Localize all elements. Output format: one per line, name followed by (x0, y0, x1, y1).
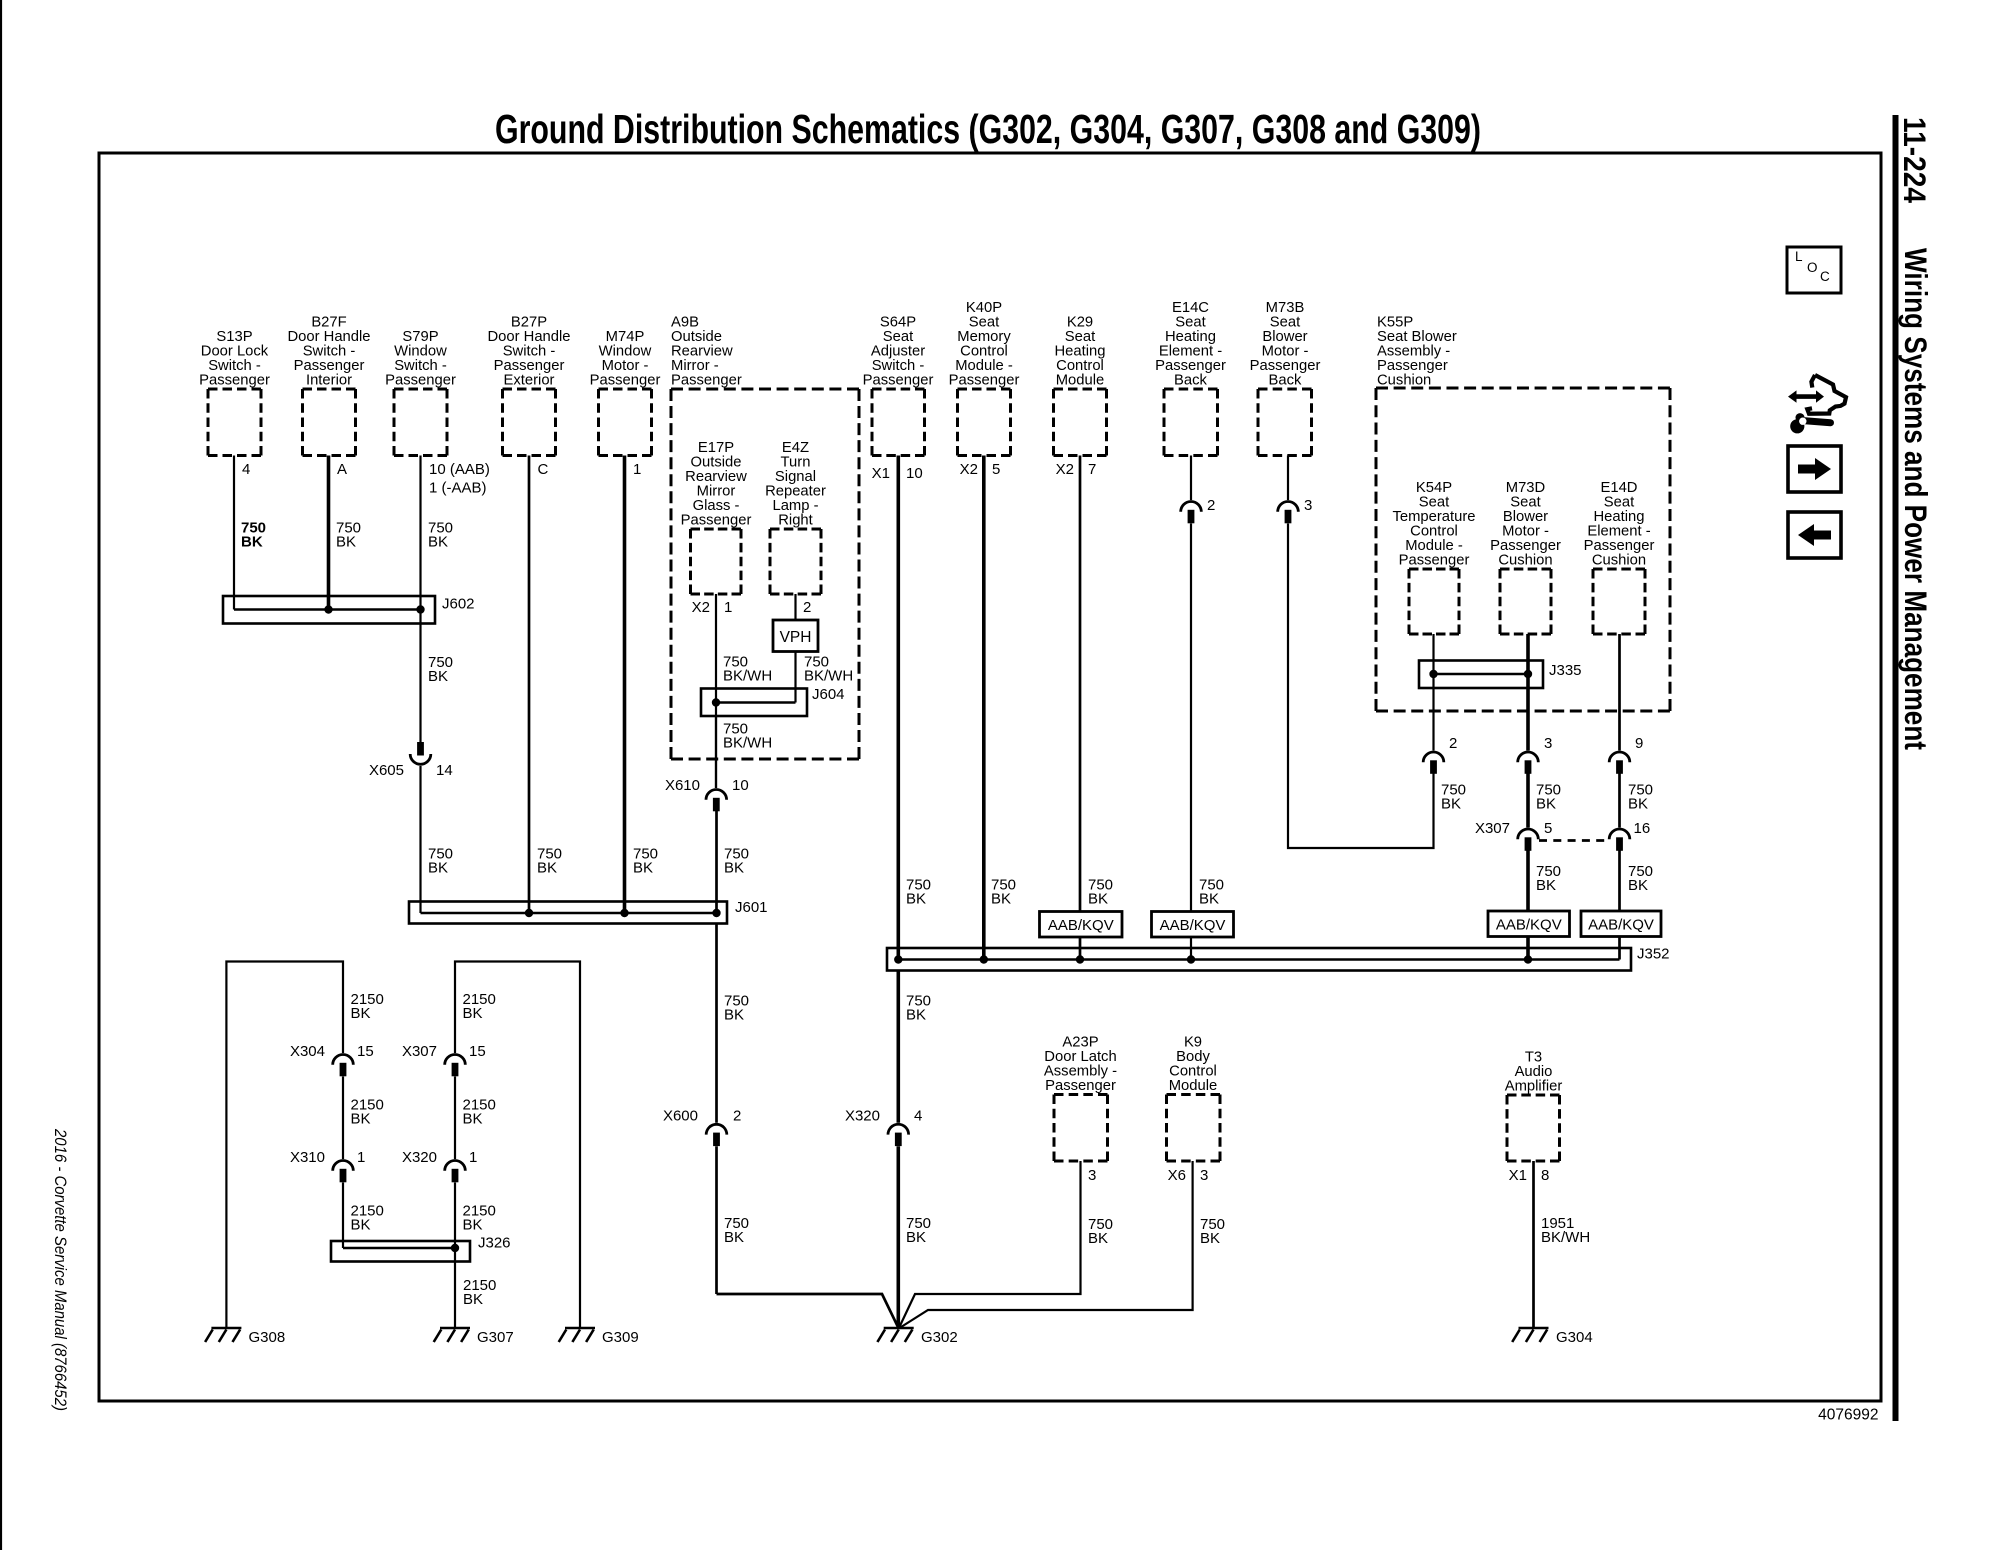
connector B27P Door Handle Switch - Passenger Exterior (487, 315, 570, 456)
wire label 750 BK/WH (below J604) (723, 721, 772, 752)
label X320 / 4 (845, 1108, 922, 1125)
wire X307-16 to AAB/KQV (1618, 851, 1621, 912)
connector K40P Seat Memory Control Module - Passenger (949, 300, 1020, 455)
inline connector pin 9 (E14D) (1609, 752, 1630, 774)
wire X600 branch to ground G302 (717, 1146, 899, 1328)
page number 11-224 (1897, 117, 1933, 203)
svg-text:BK: BK (1536, 877, 1556, 894)
svg-text:BK: BK (724, 860, 744, 877)
svg-text:X2: X2 (1056, 461, 1074, 478)
label J602 (442, 596, 475, 613)
assembly K55P Seat Blower Assembly - Passenger Cushion (1376, 315, 1670, 711)
junction dot J326/G307 leg (451, 1244, 459, 1252)
connector S64P Seat Adjuster Switch - Passenger (863, 315, 934, 456)
wire X307-5 to AAB/KQV (1526, 851, 1530, 912)
svg-text:1: 1 (633, 461, 641, 478)
wire B27P-C to splice J601 (528, 456, 531, 914)
svg-text:10: 10 (732, 777, 749, 794)
svg-text:4: 4 (242, 461, 250, 478)
wire T3 to ground G304 (1532, 1161, 1535, 1329)
svg-text:Module: Module (1056, 373, 1105, 389)
label X605 / 14 (369, 762, 453, 779)
svg-text:A: A (337, 461, 347, 478)
title (495, 106, 1481, 152)
splice J601 (409, 902, 727, 924)
wire X320-4 to ground G302 (896, 1146, 900, 1328)
svg-text:Right: Right (778, 513, 813, 529)
inline connector X605 pin 14 (410, 742, 431, 764)
label X600 / 2 (663, 1108, 741, 1125)
svg-text:C: C (538, 461, 549, 478)
svg-text:X304: X304 (290, 1043, 325, 1060)
svg-text:BK: BK (724, 1007, 744, 1024)
wire S79P to splice J602 and connector X605 (419, 456, 421, 743)
wire AAB/KQV to J352 (E14D) (1618, 937, 1621, 960)
svg-text:10 (AAB): 10 (AAB) (429, 461, 490, 478)
svg-text:X2: X2 (692, 599, 710, 616)
svg-text:J602: J602 (442, 596, 475, 613)
svg-text:BK/WH: BK/WH (723, 735, 772, 752)
pins X1 / 10 of S64P (872, 465, 923, 482)
wire label 750 BK (E14D) (1628, 782, 1653, 813)
wire label 2150 BK (X320-J326) (463, 1203, 496, 1234)
svg-text:J604: J604 (812, 686, 845, 703)
junction dot J335/M73D (1524, 670, 1532, 678)
svg-text:BK: BK (351, 1217, 371, 1234)
svg-text:AAB/KQV: AAB/KQV (1160, 917, 1226, 934)
svg-text:Cushion: Cushion (1377, 373, 1431, 389)
wire S64P to splice J352 (896, 456, 900, 960)
inline connector X307 pin 16 (1609, 829, 1630, 851)
wire loop G309 to X307 leg (455, 962, 580, 1330)
wire label 2150 BK (X310-J326) (351, 1203, 384, 1234)
schematic border frame (99, 153, 1881, 1401)
wire X320 through splice J326 to ground G307 (454, 1183, 456, 1330)
wire X610 to splice J601 (715, 811, 718, 913)
svg-text:BK: BK (537, 860, 557, 877)
label X310 / 1 (290, 1149, 365, 1166)
wire J604 to connector X610 (715, 716, 717, 788)
svg-text:Module: Module (1169, 1078, 1218, 1094)
label G307 (477, 1329, 514, 1346)
svg-text:15: 15 (469, 1043, 486, 1060)
svg-text:BK: BK (1536, 796, 1556, 813)
wire label 750 BK (below J601) (724, 993, 749, 1024)
wire label 750 BK (A23P) (1088, 1216, 1113, 1247)
svg-text:8: 8 (1541, 1167, 1549, 1184)
right sidebar rule (1893, 115, 1899, 1421)
svg-text:BK: BK (241, 534, 263, 551)
svg-text:BK: BK (906, 1007, 926, 1024)
svg-text:X307: X307 (402, 1043, 437, 1060)
svg-text:Interior: Interior (306, 373, 352, 389)
svg-text:G307: G307 (477, 1329, 514, 1346)
svg-text:BK: BK (336, 534, 356, 551)
inline connector X320 pin 1 (445, 1160, 466, 1182)
svg-text:BK: BK (724, 1229, 744, 1246)
document number 4076992 (1818, 1407, 1878, 1424)
wire label 750 BK (K40P) (991, 877, 1016, 908)
pin label 9 (E14D) (1635, 735, 1643, 752)
inline connector X610 pin 10 (706, 790, 727, 812)
pin label 2 (E14C) (1207, 497, 1215, 514)
svg-text:3: 3 (1200, 1167, 1208, 1184)
svg-text:2016 - Corvette Service Manual: 2016 - Corvette Service Manual (8766452) (51, 1128, 69, 1411)
wire B27F-A to splice J602 (327, 456, 331, 610)
svg-text:BK: BK (463, 1111, 483, 1128)
pins X1 / 8 of T3 (1509, 1167, 1550, 1184)
svg-text:VPH: VPH (780, 629, 812, 646)
svg-text:BK: BK (428, 668, 448, 685)
svg-text:X605: X605 (369, 762, 404, 779)
svg-text:BK: BK (463, 1291, 483, 1308)
svg-text:BK/WH: BK/WH (1541, 1229, 1590, 1246)
inline connector X600 pin 2 (706, 1124, 727, 1146)
wire E17P to splice J604 (715, 594, 717, 788)
label J335 (1549, 662, 1582, 679)
label X307 / 15 (402, 1043, 486, 1060)
svg-text:G309: G309 (602, 1329, 639, 1346)
pin label 3 (M73B) (1304, 497, 1312, 514)
wire label 750 BK (B27F) (336, 520, 361, 551)
module M73D Seat Blower Motor - Passenger Cushion (1490, 480, 1561, 634)
junction dot J604/E17P (712, 698, 720, 706)
wire K40P to splice J352 (982, 456, 986, 960)
svg-text:BK: BK (1088, 1230, 1108, 1247)
junction dot J352/S64P (894, 955, 902, 963)
door harness icon with double arrow and wrench (1788, 375, 1846, 433)
wire S13P-4 to splice J602 (233, 456, 235, 610)
svg-text:3: 3 (1544, 735, 1552, 752)
svg-text:X6: X6 (1168, 1167, 1186, 1184)
label G309 (602, 1329, 639, 1346)
svg-text:BK: BK (1441, 796, 1461, 813)
wire X310 to splice J326 (342, 1183, 344, 1249)
label J604 (812, 686, 845, 703)
inline connector X310 pin 1 (333, 1160, 354, 1182)
svg-text:BK: BK (991, 891, 1011, 908)
junction dot J352/E14C (1187, 955, 1195, 963)
svg-text:BK: BK (463, 1217, 483, 1234)
connector E14C Seat Heating Element - Passenger Back (1155, 300, 1226, 455)
connector S13P Door Lock Switch - Passenger (199, 329, 270, 455)
connector S79P Window Switch - Passenger (385, 329, 456, 455)
wire label 750 BK (M74P) (633, 846, 658, 877)
assembly A9B Outside Rearview Mirror - Passenger (671, 315, 859, 759)
svg-text:Passenger: Passenger (671, 373, 742, 389)
wire label 750 BK (B27P) (537, 846, 562, 877)
svg-text:Passenger: Passenger (863, 373, 934, 389)
inline connector X304 pin 15 (333, 1054, 354, 1076)
junction dot J335/K54P (1429, 670, 1437, 678)
svg-text:BK: BK (1628, 877, 1648, 894)
pins X2 / 1 of E17P (692, 599, 733, 616)
svg-text:Passenger: Passenger (385, 373, 456, 389)
svg-text:1: 1 (724, 599, 732, 616)
svg-text:9: 9 (1635, 735, 1643, 752)
wire label 750 BK (X610 branch) (724, 846, 749, 877)
wire label 750 BK (X307-16) (1628, 863, 1653, 894)
wire label 750 BK/WH (E17P) (723, 654, 772, 685)
label J601 (735, 899, 768, 916)
label G308 (249, 1329, 286, 1346)
wire label 750 BK (S79P above J601) (428, 846, 453, 877)
inline connector X307 pin 15 (445, 1054, 466, 1076)
svg-text:BK: BK (351, 1005, 371, 1022)
pins X2 / 7 of K29 (1056, 461, 1097, 478)
page left edge rule (0, 0, 2, 1550)
pin label 2 (K54P) (1449, 735, 1457, 752)
svg-text:Cushion: Cushion (1592, 553, 1646, 569)
splice J602 (223, 596, 435, 624)
pin 1 of M74P (633, 461, 641, 478)
wire label 750 BK (E14C) (1199, 877, 1224, 908)
wire X307 to X320 (454, 1077, 456, 1160)
svg-text:BK: BK (1200, 1230, 1220, 1247)
svg-text:11-224: 11-224 (1897, 117, 1933, 203)
connector K9 Body Control Module (1167, 1035, 1221, 1162)
svg-text:BK: BK (633, 860, 653, 877)
pin 4 of S13P (242, 461, 250, 478)
svg-text:X2: X2 (960, 461, 978, 478)
wire label 750 BK (S79P upper) (428, 520, 453, 551)
wire loop to ground G308 (226, 962, 343, 1330)
svg-text:4: 4 (914, 1108, 922, 1125)
connector M73B Seat Blower Motor - Passenger Back (1250, 300, 1321, 455)
svg-text:3: 3 (1304, 497, 1312, 514)
svg-text:4076992: 4076992 (1818, 1407, 1878, 1424)
wire label 1951 BK/WH (T3) (1541, 1215, 1590, 1246)
svg-text:1 (-AAB): 1 (-AAB) (429, 480, 487, 497)
svg-text:Passenger: Passenger (199, 373, 270, 389)
wire label 750 BK (X307-5) (1536, 863, 1561, 894)
connector E4Z Turn Signal Repeater Lamp - Right (765, 440, 826, 594)
wire M73D to connector X307 (1526, 774, 1530, 828)
pin 3 of A23P (1088, 1167, 1096, 1184)
svg-text:G308: G308 (249, 1329, 286, 1346)
svg-text:1: 1 (357, 1149, 365, 1166)
svg-text:X310: X310 (290, 1149, 325, 1166)
wire M73B joining K54P branch (1288, 524, 1434, 849)
svg-text:X600: X600 (663, 1108, 698, 1125)
option box AAB/KQV (K29) (1040, 912, 1123, 938)
wire AAB/KQV to J352 (M73D) (1526, 937, 1530, 960)
wire label 750 BK (S13P) (241, 520, 266, 551)
junction dot J352/K29 (1076, 955, 1084, 963)
label J326 (478, 1235, 511, 1252)
ground G307 (434, 1328, 470, 1342)
option box AAB/KQV (E14D) (1581, 911, 1661, 937)
junction dot J601/M74P (620, 909, 628, 917)
wire label 2150 BK (X304 branch upper) (351, 991, 384, 1022)
svg-text:BK: BK (906, 1229, 926, 1246)
connector E17P Outside Rearview Mirror Glass - Passenger (681, 440, 752, 594)
svg-text:BK: BK (906, 891, 926, 908)
pins X2 / 5 of K40P (960, 461, 1001, 478)
ground G308 (205, 1328, 241, 1342)
label G302 (921, 1329, 958, 1346)
wire X605 to splice J601 (419, 766, 421, 913)
svg-text:Ground Distribution Schematics: Ground Distribution Schematics (G302, G3… (495, 106, 1481, 152)
svg-text:14: 14 (436, 762, 453, 779)
inline connector X320 pin 4 (888, 1124, 909, 1146)
wire J601 to connector X600 (715, 924, 718, 1123)
wire E14D to connector X307 (1618, 774, 1621, 828)
inline connector pin 3 (M73D) (1518, 752, 1539, 774)
svg-text:AAB/KQV: AAB/KQV (1048, 917, 1114, 934)
wire label 750 BK (below J352) (906, 993, 931, 1024)
wire label 2150 BK (below J326) (463, 1277, 496, 1308)
inline connector X307 pin 5 (1518, 829, 1539, 851)
wire X304 to X310 (342, 1077, 344, 1160)
ground G302 (877, 1328, 913, 1342)
wire VPH to splice J604 (794, 652, 796, 703)
svg-text:X320: X320 (845, 1108, 880, 1125)
wire label 750 BK (K9) (1200, 1216, 1225, 1247)
splice J352 (887, 948, 1631, 971)
wire AAB/KQV to J352 (K29) (1079, 937, 1082, 960)
svg-text:C: C (1820, 269, 1830, 284)
left margin note 2016 - Corvette Service Manual (8766452) (51, 1128, 69, 1411)
ground G309 (559, 1328, 595, 1342)
svg-text:10: 10 (906, 465, 923, 482)
svg-text:J335: J335 (1549, 662, 1582, 679)
svg-text:BK: BK (428, 534, 448, 551)
connector T3 Audio Amplifier (1505, 1050, 1563, 1162)
label X320 / 1 (402, 1149, 477, 1166)
label X610 / 10 (665, 777, 749, 794)
junction dot J601/B27P (525, 909, 533, 917)
wire M73D to splice J335 and below (1526, 634, 1530, 751)
svg-text:X307: X307 (1475, 820, 1510, 837)
module E14D Seat Heating Element - Passenger Cushion (1584, 480, 1655, 634)
svg-text:7: 7 (1088, 461, 1096, 478)
svg-text:16: 16 (1634, 820, 1651, 837)
junction dot J602/S79P (416, 605, 424, 613)
ground G304 (1512, 1328, 1548, 1342)
svg-text:J601: J601 (735, 899, 768, 916)
svg-text:1: 1 (469, 1149, 477, 1166)
svg-text:5: 5 (1544, 820, 1552, 837)
svg-text:O: O (1807, 260, 1818, 275)
junction dot J352/M73D (1524, 955, 1532, 963)
svg-text:X320: X320 (402, 1149, 437, 1166)
svg-text:BK: BK (428, 860, 448, 877)
svg-text:2: 2 (1207, 497, 1215, 514)
splice J604 (701, 689, 807, 717)
forward arrow icon box (1788, 446, 1841, 492)
svg-text:Passenger: Passenger (590, 373, 661, 389)
wire K9 to ground G302 (899, 1161, 1193, 1329)
inline connector pin 2 (E14C) (1181, 501, 1202, 523)
LOC icon box (1787, 247, 1841, 293)
pins X6 / 3 of K9 (1168, 1167, 1209, 1184)
svg-text:5: 5 (992, 461, 1000, 478)
svg-text:L: L (1795, 249, 1803, 264)
wire E4Z-2 to VPH option box (794, 594, 796, 620)
svg-text:BK/WH: BK/WH (804, 668, 853, 685)
inline connector pin 3 (M73B) (1278, 501, 1299, 523)
pin label 3 (M73D) (1544, 735, 1552, 752)
svg-text:3: 3 (1088, 1167, 1096, 1184)
option box AAB/KQV (M73D) (1488, 911, 1570, 937)
pin A of B27F (337, 461, 347, 478)
pins 10 (AAB) / 1 (-AAB) of S79P (429, 461, 490, 497)
wire K54P to splice J335 and connector pin 2 (1432, 634, 1434, 751)
inline connector pin 2 (K54P) (1423, 752, 1444, 774)
svg-text:G304: G304 (1556, 1329, 1593, 1346)
wire M73B to inline connector (1287, 456, 1289, 501)
svg-text:AAB/KQV: AAB/KQV (1496, 917, 1562, 934)
wire label 750 BK (X600 branch) (724, 1215, 749, 1246)
wire A23P-3 to ground G302 (899, 1161, 1081, 1329)
svg-text:15: 15 (357, 1043, 374, 1060)
wire M74P-1 to splice J601 (623, 456, 627, 914)
option box AAB/KQV (E14C) (1152, 912, 1234, 938)
svg-text:2: 2 (803, 599, 811, 616)
connector A23P Door Latch Assembly - Passenger (1044, 1035, 1117, 1162)
connector M74P Window Motor - Passenger (590, 329, 661, 455)
wire AAB/KQV to J352 (E14C) (1190, 937, 1192, 960)
wire label 750 BK (S79P below J602) (428, 654, 453, 685)
wire label 750 BK/WH (E4Z) (804, 654, 853, 685)
section header Wiring Systems and Power Management (1898, 248, 1934, 750)
svg-text:X610: X610 (665, 777, 700, 794)
junction dot J602/B27F (324, 605, 332, 613)
wire J352 to connector X320 and ground G302 (896, 971, 900, 1123)
svg-text:Passenger: Passenger (949, 373, 1020, 389)
svg-text:Amplifier: Amplifier (1505, 1079, 1563, 1095)
label X307 / 5 / 16 (1475, 820, 1650, 837)
wire label 750 BK (K29) (1088, 877, 1113, 908)
svg-text:2: 2 (1449, 735, 1457, 752)
svg-text:AAB/KQV: AAB/KQV (1588, 917, 1654, 934)
wire K29 to AAB/KQV option box (1079, 456, 1082, 912)
wire label 750 BK (M73D) (1536, 782, 1561, 813)
svg-text:2: 2 (733, 1108, 741, 1125)
back arrow icon box (1788, 512, 1841, 558)
junction dot J601/X610 branch (712, 909, 720, 917)
wire label 750 BK (S64P) (906, 877, 931, 908)
splice J335 (1419, 661, 1543, 689)
wire label 2150 BK (X307-X320) (463, 1097, 496, 1128)
wire label 2150 BK (X304-X310) (351, 1097, 384, 1128)
svg-text:Passenger: Passenger (681, 513, 752, 529)
svg-text:J326: J326 (478, 1235, 511, 1252)
label X304 / 15 (290, 1043, 374, 1060)
wire E14C to inline connector (1190, 456, 1192, 501)
svg-text:Wiring Systems and Power Manag: Wiring Systems and Power Management (1898, 248, 1934, 750)
svg-text:Exterior: Exterior (504, 373, 555, 389)
svg-text:J352: J352 (1637, 946, 1670, 963)
svg-text:BK: BK (463, 1005, 483, 1022)
svg-text:Passenger: Passenger (1399, 553, 1470, 569)
wire E14C to AAB/KQV option box (1190, 524, 1192, 912)
junction dot J352/K40P (980, 955, 988, 963)
pin 2 of E4Z (803, 599, 811, 616)
label G304 (1556, 1329, 1593, 1346)
module K54P Seat Temperature Control Module - Passenger (1392, 480, 1475, 634)
svg-text:G302: G302 (921, 1329, 958, 1346)
pin C of B27P (538, 461, 549, 478)
svg-text:X1: X1 (1509, 1167, 1527, 1184)
splice J326 (331, 1241, 470, 1262)
label J352 (1637, 946, 1670, 963)
wire label 2150 BK (X307 branch upper) (463, 991, 496, 1022)
svg-text:X1: X1 (872, 465, 890, 482)
svg-text:BK: BK (1088, 891, 1108, 908)
wire label 750 BK (X320 branch) (906, 1215, 931, 1246)
